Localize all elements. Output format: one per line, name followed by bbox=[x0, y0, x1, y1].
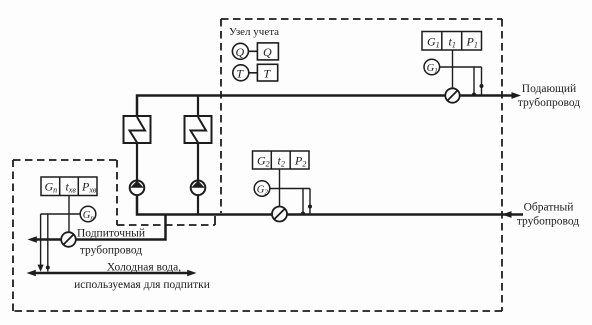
temperature T circle bbox=[233, 65, 249, 81]
label: cold water bbox=[74, 262, 210, 292]
heat exchanger HX2 bbox=[185, 116, 212, 143]
sensor boxes G1 t1 P1 bbox=[422, 32, 482, 51]
wire: make-up tap down to cold water line bbox=[40, 214, 42, 266]
junction dot on return pipe bbox=[301, 212, 305, 216]
metering unit boundary: make-up box top edge bbox=[13, 159, 117, 161]
metering unit boundary: left lower edge bbox=[12, 160, 14, 311]
junction dot on supply tap 2 bbox=[480, 84, 484, 88]
svg-text:Холодная вода,: Холодная вода, bbox=[107, 262, 181, 274]
metering unit boundary: top edge bbox=[221, 18, 502, 20]
cold water line right arrowhead bbox=[187, 270, 196, 277]
wire: return pressure tap 1 bbox=[302, 189, 304, 214]
make-up pipe arrowhead bbox=[28, 236, 37, 243]
metering unit boundary: notch stub up to return pipe bbox=[214, 216, 216, 225]
svg-text:используемая для подпитки: используемая для подпитки bbox=[74, 279, 210, 291]
label: make-up pipeline bbox=[77, 228, 145, 257]
cold water line left arrowhead bbox=[27, 270, 36, 277]
pump N2 bbox=[191, 181, 206, 196]
svg-text:трубопровод: трубопровод bbox=[518, 97, 580, 109]
flow transducer on make-up pipe bbox=[61, 232, 76, 247]
svg-text:Обратный: Обратный bbox=[524, 202, 574, 214]
flow transducer on supply pipe bbox=[445, 88, 459, 102]
label: supply pipeline bbox=[518, 83, 580, 109]
pump N1 bbox=[130, 181, 145, 196]
wire: Gp circle horizontal bbox=[41, 213, 81, 215]
make-up pipe bbox=[33, 214, 166, 240]
metering unit boundary: notch vertical bbox=[116, 160, 118, 225]
flow transducer on return pipe bbox=[272, 207, 287, 222]
svg-text:Подающий: Подающий bbox=[522, 83, 576, 95]
supply pipe arrowhead bbox=[512, 92, 522, 99]
wire: t1 sensor to supply flow transducer bbox=[452, 50, 454, 89]
svg-text:Узел учета: Узел учета bbox=[229, 26, 279, 38]
wire: t2 sensor to return flow transducer bbox=[279, 169, 281, 207]
return pipe arrowhead bbox=[502, 211, 512, 218]
sensor boxes Gp txv Pxv bbox=[41, 177, 97, 196]
heat register Q box bbox=[257, 43, 278, 60]
wire: T circle to T register bbox=[249, 72, 258, 74]
label: Uzel ucheta bbox=[229, 26, 279, 38]
wire: HX1 to pump N1 bbox=[136, 143, 138, 181]
wire: G2 circle horizontal bbox=[270, 188, 310, 190]
svg-text:Q: Q bbox=[263, 45, 272, 59]
metering unit boundary: right edge bbox=[501, 19, 503, 311]
svg-text:Подпиточный: Подпиточный bbox=[77, 228, 145, 240]
supply pipe bbox=[137, 96, 515, 117]
metering unit boundary: notch horizontal bbox=[117, 224, 215, 226]
wire: G1 circle horizontal bbox=[440, 66, 482, 68]
wire: pump N2 to return pipe bbox=[197, 195, 199, 215]
svg-text:Q: Q bbox=[236, 45, 245, 59]
metering unit boundary: bottom edge bbox=[13, 310, 502, 312]
arrowhead into cold water line bbox=[38, 265, 44, 272]
wire: HX2 top stub bbox=[197, 96, 199, 117]
wire: HX2 to pump N2 bbox=[197, 143, 199, 181]
wire: txv sensor to make-up flow transducer bbox=[68, 196, 70, 233]
wire: return pressure tap 2 bbox=[309, 189, 311, 214]
wire: supply pressure tap 1 bbox=[473, 67, 475, 95]
flow meter G1 circle bbox=[424, 59, 440, 75]
flow meter G2 circle bbox=[254, 181, 270, 197]
flow meter Gp circle bbox=[80, 206, 96, 222]
cold water line bbox=[32, 272, 190, 275]
wire: Q circle to Q register bbox=[248, 50, 257, 52]
heat meter Q circle bbox=[232, 43, 248, 59]
sensor boxes G2 t2 P2 bbox=[253, 151, 310, 169]
junction dot on supply pipe bbox=[472, 93, 476, 97]
wire: supply pressure tap 2 bbox=[481, 67, 483, 95]
label: return pipeline bbox=[517, 202, 579, 228]
junction dot on cold water tap bbox=[46, 266, 50, 270]
temperature register T box bbox=[257, 64, 277, 81]
metering unit boundary: big box left edge bbox=[220, 19, 222, 213]
heat exchanger HX1 bbox=[124, 116, 151, 143]
junction dot on return tap 2 bbox=[308, 205, 312, 209]
wire: second make-up tap to cold water line bbox=[47, 214, 49, 272]
svg-text:трубопровод: трубопровод bbox=[517, 216, 579, 228]
return pipe bbox=[137, 195, 523, 215]
svg-text:трубопровод: трубопровод bbox=[80, 245, 142, 257]
